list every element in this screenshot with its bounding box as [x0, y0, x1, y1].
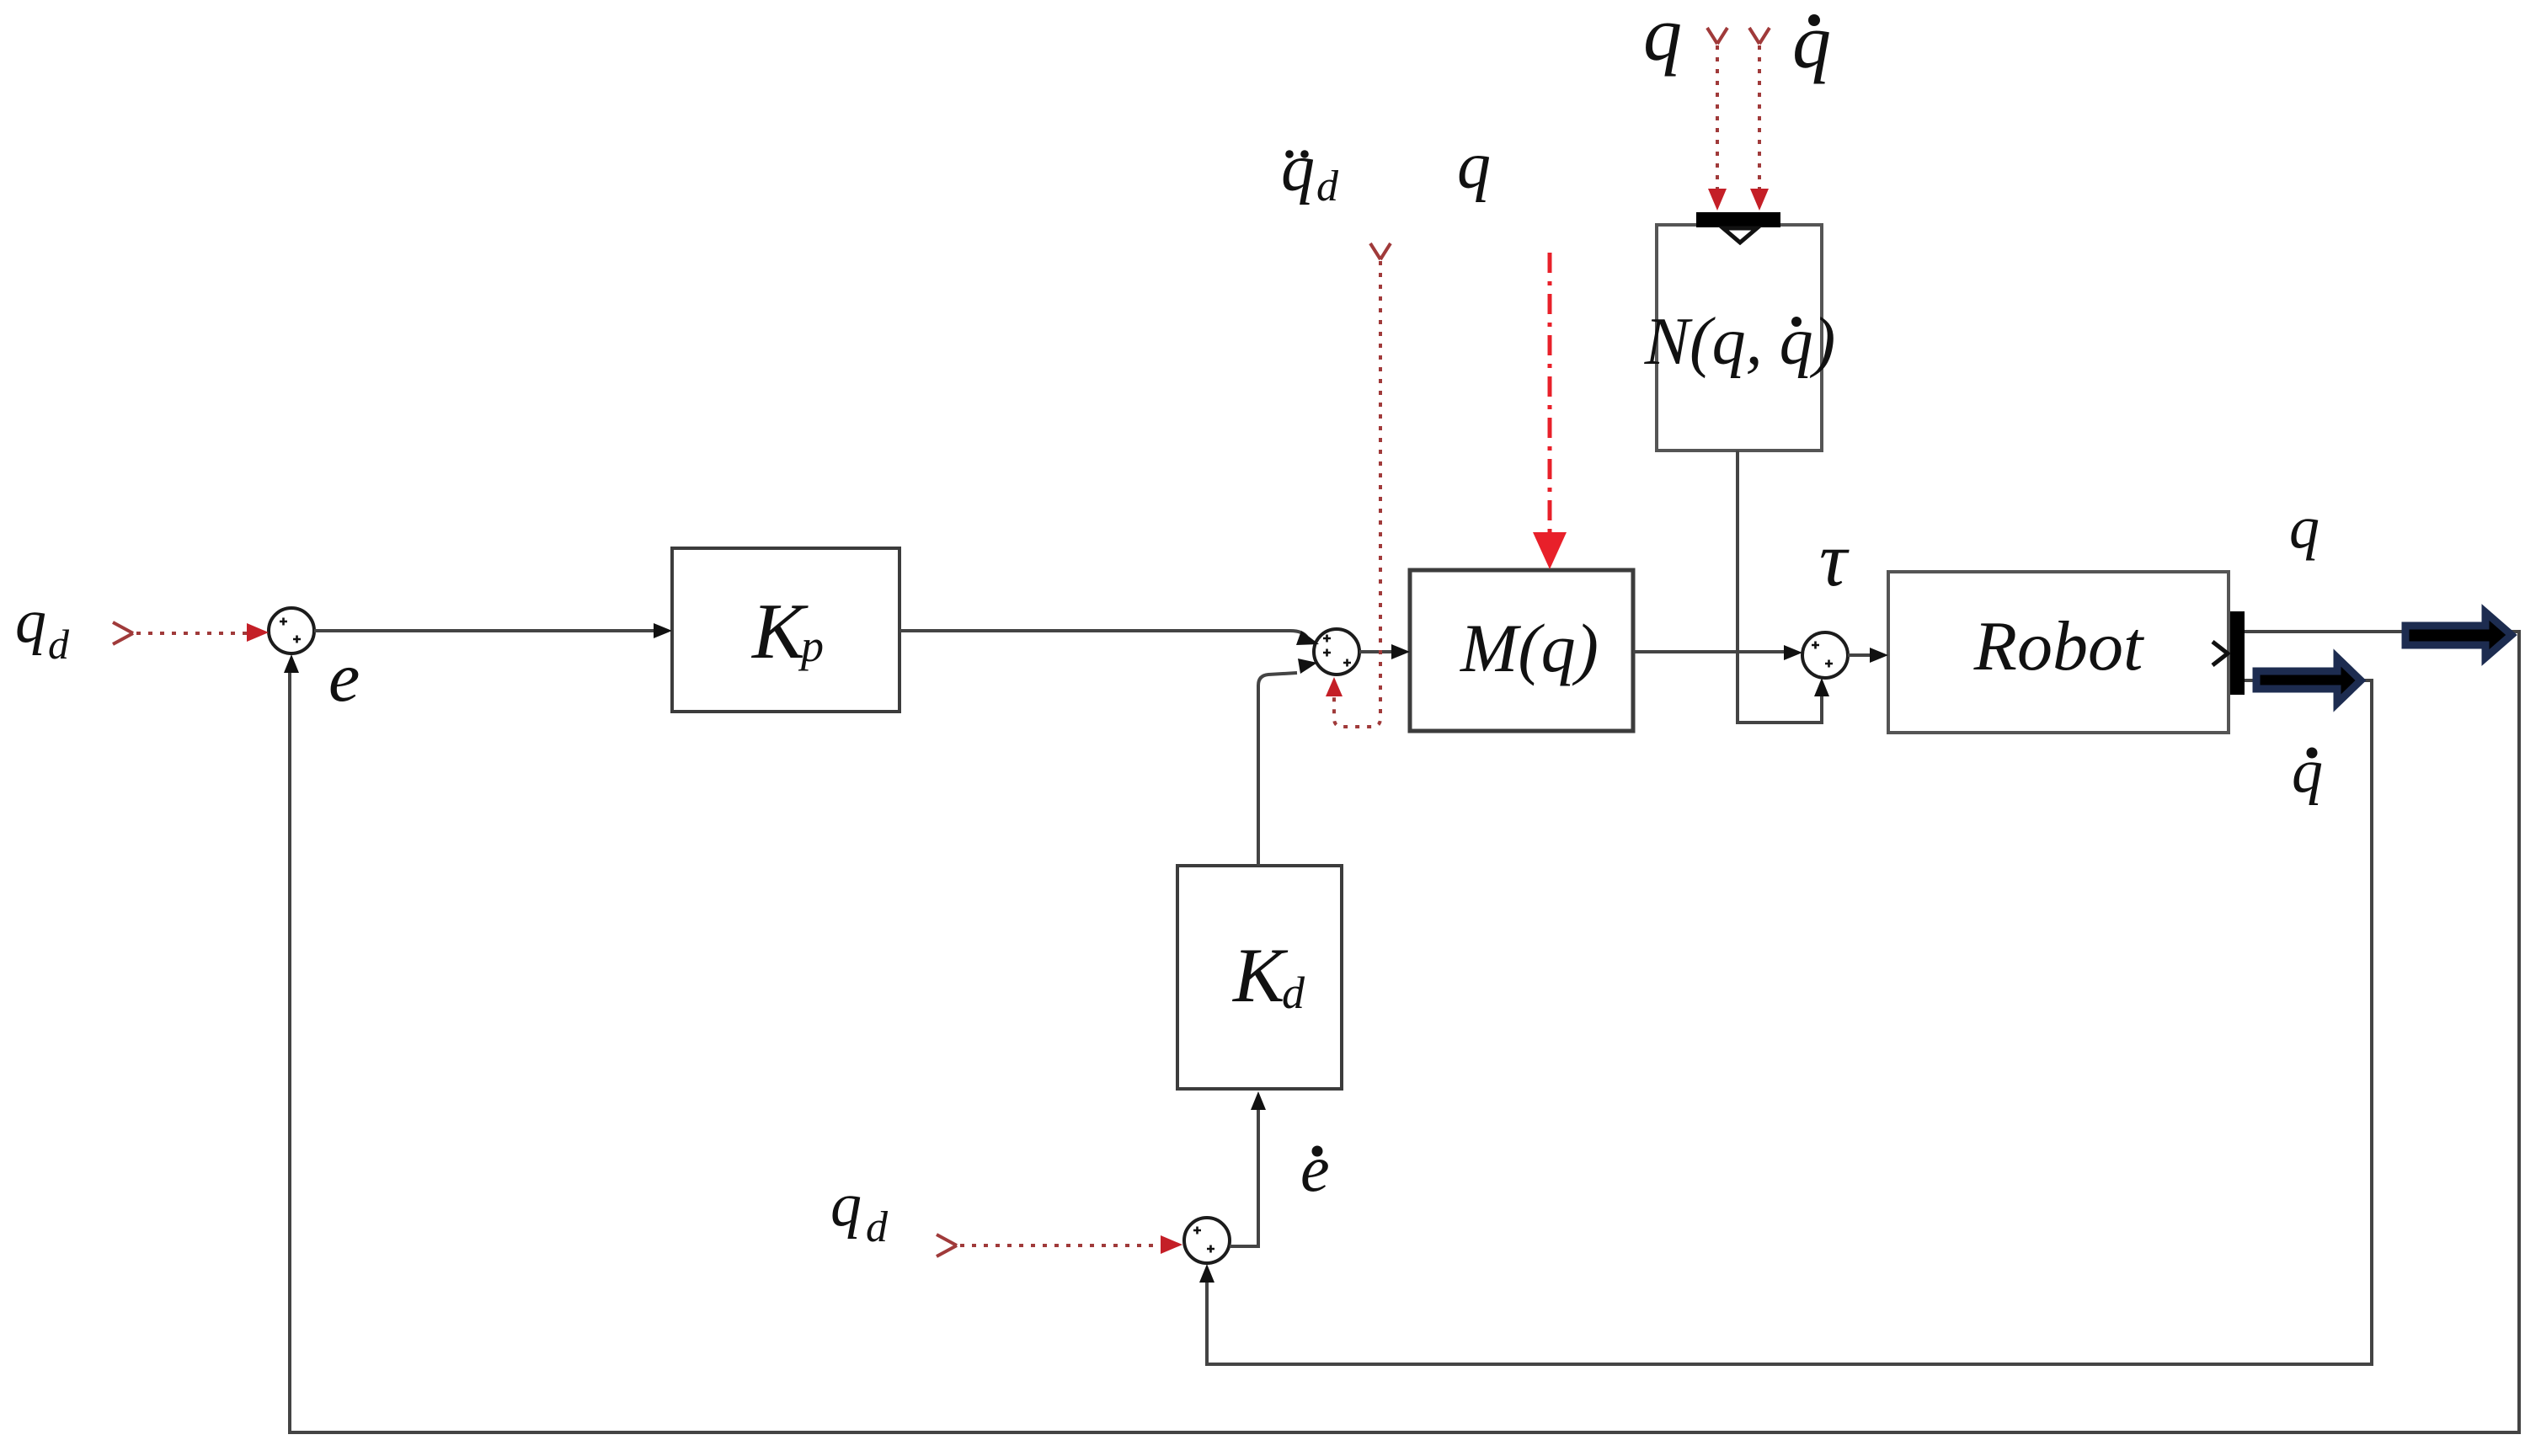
svg-text:Robot: Robot	[1973, 607, 2145, 685]
block Kp	[672, 548, 899, 712]
svg-text:q: q	[1281, 131, 1315, 205]
block Kd	[1177, 866, 1342, 1089]
wire S3 to Robot	[1848, 648, 1888, 663]
label edot	[1300, 1132, 1330, 1205]
label qddot_d	[1281, 131, 1339, 211]
wire Kd output up to S2	[1258, 659, 1317, 866]
red dotted qdot input to N bar	[1749, 28, 1770, 211]
svg-text:q: q	[1457, 129, 1491, 203]
summing junction S2 (mid, before M)	[1314, 629, 1359, 675]
svg-text:d: d	[866, 1203, 889, 1251]
red dotted q input to N bar	[1707, 28, 1727, 211]
svg-text:q: q	[2289, 493, 2319, 561]
thick arrow qdot output	[2256, 658, 2361, 703]
wire N(q,qdot) down to S3	[1738, 451, 1829, 723]
svg-text:q: q	[830, 1171, 862, 1240]
node: N input triangle	[1723, 228, 1757, 243]
svg-text:q: q	[2292, 737, 2323, 806]
svg-text:q: q	[1792, 0, 1831, 84]
svg-text:M(q): M(q)	[1460, 610, 1599, 686]
svg-text:N(q, q): N(q, q)	[1644, 305, 1836, 379]
svg-text:d: d	[1282, 968, 1305, 1018]
label qdot (Robot lower output)	[2292, 737, 2323, 806]
label qdot (top, right of N inputs)	[1792, 0, 1831, 84]
summing junction S3 (tau)	[1802, 632, 1848, 678]
svg-text:e: e	[328, 638, 360, 717]
wire e : S1 to Kp	[314, 623, 672, 638]
wire q feedback : Robot to S1 (outer loop)	[284, 632, 2519, 1432]
svg-text:τ: τ	[1819, 516, 1850, 602]
svg-text:d: d	[1316, 163, 1339, 211]
svg-text:d: d	[48, 621, 70, 668]
svg-text:K: K	[1231, 932, 1289, 1018]
block N(q,qdot)	[1644, 225, 1836, 451]
block M(q)	[1410, 570, 1633, 731]
svg-text:K: K	[750, 588, 809, 675]
wire edot : S4 to Kd	[1230, 1091, 1266, 1246]
thick arrow q output	[2405, 612, 2512, 658]
label qd (left input)	[15, 587, 70, 668]
red dotted qddot_d line into S2 bottom	[1326, 243, 1391, 727]
wire qdot feedback : Robot to S4 (inner loop)	[1199, 680, 2372, 1364]
wire Kp output to S2	[899, 631, 1319, 645]
wire M(q) to S3	[1633, 645, 1802, 660]
red dotted input qd to S1	[113, 622, 269, 644]
summing junction S4 (lower)	[1184, 1218, 1230, 1263]
svg-text:p: p	[798, 621, 824, 671]
red dotted input qd to S4	[937, 1235, 1182, 1256]
node: Robot output port bar	[2213, 611, 2245, 695]
svg-text:e: e	[1300, 1132, 1330, 1205]
svg-text:q: q	[15, 587, 46, 656]
node: N input bar	[1696, 212, 1780, 227]
label qd (lower input)	[830, 1171, 889, 1251]
summing junction S1 (left)	[269, 608, 314, 653]
wire S2 to M(q)	[1359, 644, 1410, 659]
block Robot	[1888, 572, 2229, 733]
red dash-dot q arrow into M(q)	[1533, 253, 1567, 569]
svg-text:q: q	[1643, 0, 1682, 77]
